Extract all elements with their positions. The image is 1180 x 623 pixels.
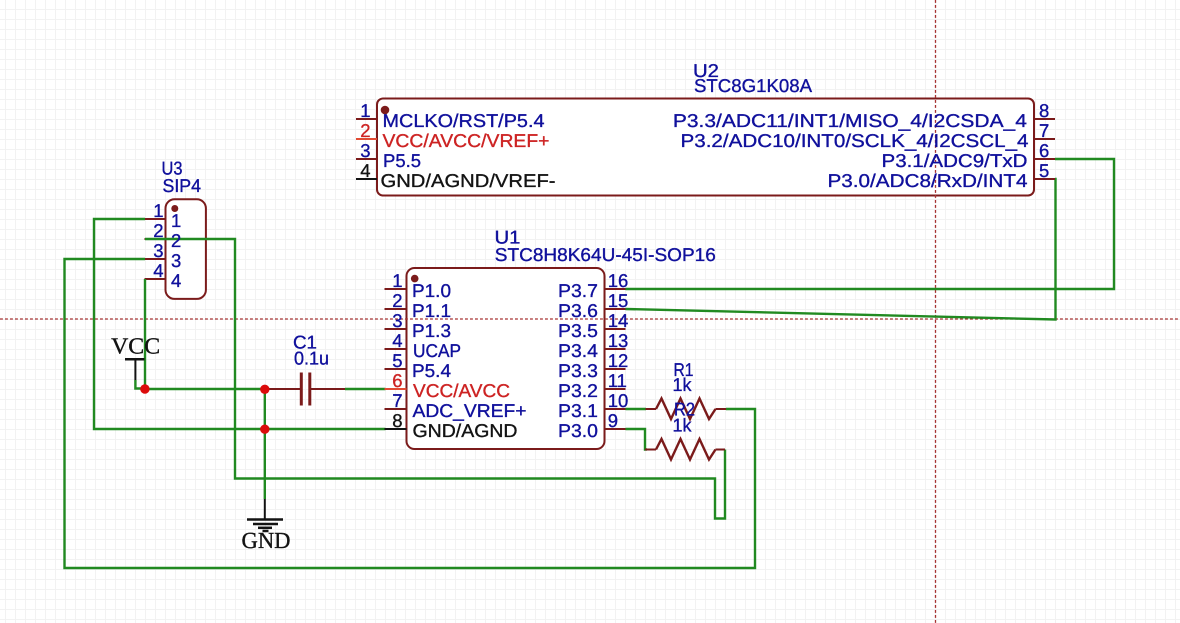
- junction node at VCC: [140, 384, 149, 393]
- svg-text:GND: GND: [242, 528, 291, 553]
- svg-text:7: 7: [392, 390, 402, 411]
- svg-text:15: 15: [608, 290, 629, 311]
- connector body U3: [166, 199, 206, 299]
- svg-text:1: 1: [360, 100, 370, 121]
- svg-text:P3.4: P3.4: [558, 340, 598, 361]
- svg-text:P3.7: P3.7: [558, 280, 598, 301]
- svg-text:12: 12: [608, 350, 629, 371]
- svg-text:P3.3: P3.3: [558, 360, 598, 381]
- wire U1 pin16 to U2 pin6: [626, 159, 1115, 289]
- svg-text:GND/AGND: GND/AGND: [413, 420, 518, 441]
- svg-text:1: 1: [153, 200, 163, 221]
- wire U3 pin2 to R2 right terminal: [145, 239, 725, 519]
- svg-text:SIP4: SIP4: [163, 175, 202, 196]
- svg-text:16: 16: [608, 270, 629, 291]
- svg-text:ADC_VREF+: ADC_VREF+: [413, 400, 527, 421]
- svg-text:8: 8: [1039, 100, 1049, 121]
- svg-text:4: 4: [360, 160, 370, 181]
- svg-text:P5.4: P5.4: [412, 360, 451, 381]
- svg-text:VCC: VCC: [111, 334, 160, 359]
- svg-text:STC8H8K64U-45I-SOP16: STC8H8K64U-45I-SOP16: [495, 244, 716, 265]
- junction node A (C1 left / VCC rail): [260, 385, 269, 394]
- svg-text:10: 10: [608, 390, 629, 411]
- capacitor C1: [265, 332, 345, 406]
- U1 pin stubs right (pins 16-9): [605, 289, 626, 429]
- svg-text:2: 2: [360, 120, 370, 141]
- IC body U2: [377, 99, 1034, 196]
- svg-text:3: 3: [392, 310, 402, 331]
- svg-text:3: 3: [360, 140, 370, 161]
- junction node B (GND rail): [260, 425, 269, 434]
- svg-text:P1.0: P1.0: [412, 280, 451, 301]
- cursor crosshair vertical: [935, 0, 937, 623]
- svg-text:3: 3: [153, 240, 163, 261]
- svg-text:P3.1: P3.1: [558, 400, 598, 421]
- resistor R2: [645, 399, 725, 460]
- svg-text:11: 11: [608, 370, 627, 391]
- IC body U1: [407, 268, 605, 449]
- ground symbol GND: [242, 499, 291, 553]
- U1 pin stubs left (pins 1-8): [385, 289, 407, 429]
- svg-text:14: 14: [608, 310, 629, 331]
- wire U1 pin10 to R1 left: [626, 408, 647, 410]
- svg-text:P3.0: P3.0: [558, 420, 598, 441]
- resistor R1: [646, 359, 727, 419]
- wire U3 pin1 to GND rail / U1 pin8: [94, 219, 386, 429]
- svg-text:5: 5: [392, 350, 402, 371]
- wire U3 pin3 to R1 right side via bottom loop: [65, 259, 756, 568]
- U3 pin1 marker dot: [171, 205, 178, 212]
- svg-text:2: 2: [392, 290, 402, 311]
- svg-text:7: 7: [1039, 120, 1049, 141]
- svg-text:P1.3: P1.3: [412, 320, 451, 341]
- U2 pin stubs left (pins 1-4): [356, 119, 377, 179]
- svg-text:P1.1: P1.1: [412, 300, 451, 321]
- svg-text:4: 4: [171, 270, 181, 291]
- U1 pin1 marker dot: [411, 275, 419, 283]
- U3 pin stubs (pins 1-4): [145, 219, 166, 279]
- U2 pin1 marker dot: [381, 106, 390, 115]
- svg-text:5: 5: [1039, 160, 1049, 181]
- svg-text:STC8G1K08A: STC8G1K08A: [694, 75, 813, 96]
- svg-text:VCC/AVCC: VCC/AVCC: [413, 380, 510, 401]
- svg-text:P3.2/ADC10/INT0/SCLK_4/I2CSCL_: P3.2/ADC10/INT0/SCLK_4/I2CSCL_4: [681, 130, 1029, 151]
- svg-text:4: 4: [392, 330, 402, 351]
- svg-text:1k: 1k: [673, 374, 693, 395]
- svg-text:2: 2: [171, 230, 181, 251]
- wire C1 junction down to GND symbol: [264, 389, 266, 499]
- svg-text:0.1u: 0.1u: [294, 348, 329, 369]
- svg-text:1k: 1k: [673, 415, 693, 436]
- cursor crosshair horizontal: [0, 318, 1180, 320]
- svg-text:P3.1/ADC9/TxD: P3.1/ADC9/TxD: [882, 150, 1028, 171]
- svg-text:GND/AGND/VREF-: GND/AGND/VREF-: [381, 170, 556, 191]
- U2 pin stubs right (pins 8,7,6,5): [1034, 119, 1055, 179]
- svg-text:6: 6: [1039, 140, 1049, 161]
- svg-text:2: 2: [153, 220, 163, 241]
- svg-text:P5.5: P5.5: [383, 150, 421, 171]
- wire VCC rail right segment C1 to U1 pin6: [345, 388, 386, 390]
- svg-text:13: 13: [608, 330, 629, 351]
- svg-text:P3.5: P3.5: [558, 320, 598, 341]
- svg-text:4: 4: [153, 260, 163, 281]
- wire VCC rail left segment: [135, 380, 264, 389]
- svg-text:P3.3/ADC11/INT1/MISO_4/I2CSDA_: P3.3/ADC11/INT1/MISO_4/I2CSDA_4: [673, 110, 1027, 131]
- svg-text:1: 1: [171, 210, 181, 231]
- svg-text:P3.2: P3.2: [558, 380, 598, 401]
- svg-text:VCC/AVCC/VREF+: VCC/AVCC/VREF+: [383, 130, 550, 151]
- svg-text:UCAP: UCAP: [413, 340, 461, 361]
- svg-text:MCLKO/RST/P5.4: MCLKO/RST/P5.4: [383, 110, 545, 131]
- wire U1 pin15 to U2 pin5 (diagonal): [626, 179, 1056, 320]
- wire U3 pin4 down to VCC junction: [144, 279, 146, 389]
- svg-text:9: 9: [608, 410, 618, 431]
- svg-text:1: 1: [392, 270, 402, 291]
- svg-text:6: 6: [392, 370, 402, 391]
- svg-text:P3.6: P3.6: [558, 300, 598, 321]
- svg-text:3: 3: [171, 250, 181, 271]
- svg-text:8: 8: [392, 410, 402, 431]
- power symbol VCC: [111, 334, 160, 381]
- svg-text:P3.0/ADC8/RxD/INT4: P3.0/ADC8/RxD/INT4: [828, 170, 1028, 191]
- wire U1 pin9 to R2 left: [626, 429, 648, 450]
